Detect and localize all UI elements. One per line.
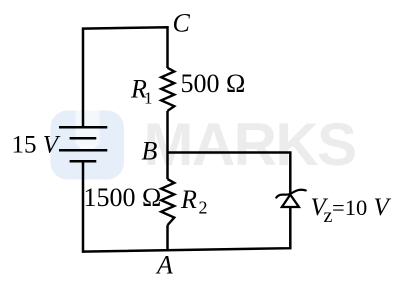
- battery V1 15V plates: [59, 127, 107, 161]
- watermark logo square: [51, 111, 125, 180]
- zener diode triangle: [282, 195, 299, 207]
- wire top-left loop: battery top to C corner down to R1: [83, 27, 168, 128]
- resistor R1 zigzag: [161, 68, 174, 111]
- resistor R2 zigzag: [161, 179, 174, 225]
- svg-text:=10: =10: [332, 195, 367, 220]
- wire R2 to node A: [166, 225, 169, 250]
- svg-text:1500 Ω: 1500 Ω: [84, 183, 162, 212]
- svg-text:1: 1: [144, 89, 153, 108]
- wire between R1 and R2 through node B: [166, 111, 169, 179]
- zener diode curved cathode bar: [276, 190, 306, 198]
- svg-text:15 V: 15 V: [12, 132, 61, 159]
- svg-text:A: A: [155, 251, 173, 280]
- svg-text:MARKS: MARKS: [144, 111, 356, 178]
- wire node B horizontal and right branch down to zener cathode: [168, 153, 291, 195]
- svg-text:C: C: [173, 9, 191, 38]
- svg-text:500 Ω: 500 Ω: [181, 69, 246, 98]
- svg-text:R: R: [180, 185, 197, 214]
- svg-text:B: B: [142, 137, 158, 166]
- svg-text:2: 2: [199, 198, 208, 218]
- wire bottom loop: battery bottom, bottom wire, right branch up to zener triangle: [83, 160, 290, 251]
